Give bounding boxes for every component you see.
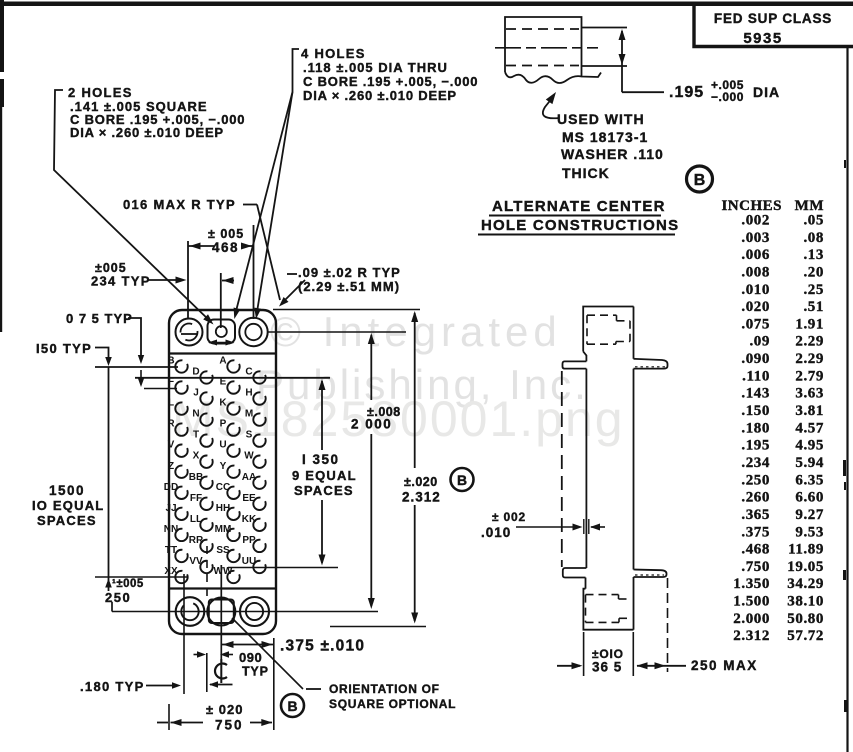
- extension row W right: [228, 567, 338, 569]
- svg-text:.13: .13: [803, 247, 824, 263]
- dim 750 extension left: [168, 704, 170, 730]
- top middle hole width arrows: [209, 342, 234, 344]
- svg-text:L: L: [168, 398, 174, 409]
- svg-text:.09: .09: [749, 334, 770, 350]
- svg-text:.118 ±.005 DIA THRU: .118 ±.005 DIA THRU: [303, 60, 448, 75]
- svg-text:.150: .150: [741, 403, 770, 419]
- side view top cap outline: [583, 307, 633, 352]
- top middle square hole: [208, 320, 236, 344]
- svg-text:.365: .365: [741, 507, 770, 523]
- svg-text:.20: .20: [803, 264, 824, 280]
- svg-text:Z: Z: [168, 461, 174, 472]
- svg-text:C BORE .195 +.005, −.000: C BORE .195 +.005, −.000: [303, 74, 478, 89]
- svg-text:.180: .180: [741, 420, 770, 436]
- middle hole centerline below board: [220, 565, 222, 662]
- dim 1500 bottom arrow: [108, 577, 110, 591]
- extension board bottom edge: [330, 626, 426, 628]
- svg-text:JJ: JJ: [165, 503, 176, 514]
- svg-text:.375 ±.010: .375 ±.010: [280, 638, 365, 655]
- dim 365 extension right: [632, 632, 634, 676]
- title box FED SUP CLASS: [694, 4, 853, 47]
- svg-text:CC: CC: [216, 482, 230, 493]
- svg-text:4.95: 4.95: [795, 438, 824, 454]
- row B extension line: [95, 366, 178, 368]
- svg-text:(2.29 ±.51 MM): (2.29 ±.51 MM): [298, 279, 400, 294]
- row C-D long extension line: [135, 377, 330, 379]
- svg-text:IO EQUAL: IO EQUAL: [32, 498, 104, 513]
- washer detail hidden line lower: [506, 65, 579, 67]
- svg-text:T: T: [193, 430, 199, 441]
- svg-text:.110: .110: [742, 368, 770, 384]
- svg-text:2 HOLES: 2 HOLES: [68, 85, 133, 100]
- svg-text:BB: BB: [189, 472, 203, 483]
- svg-text:.003: .003: [741, 230, 770, 246]
- washer detail step line lower: [582, 65, 628, 67]
- svg-text:38.10: 38.10: [787, 594, 824, 610]
- svg-text:ORIENTATION OF: ORIENTATION OF: [329, 682, 440, 696]
- svg-text:XX: XX: [164, 566, 178, 577]
- svg-text:9.27: 9.27: [795, 507, 824, 523]
- bottom middle square hole: [207, 598, 235, 626]
- dim 090 arrows: [194, 654, 204, 656]
- svg-text:HOLE CONSTRUCTIONS: HOLE CONSTRUCTIONS: [481, 217, 679, 234]
- svg-text:± 002: ± 002: [492, 510, 526, 524]
- svg-text:MS182580001.png: MS182580001.png: [172, 391, 625, 447]
- svg-text:468: 468: [212, 240, 239, 255]
- used-with leader arrow: [543, 97, 559, 118]
- svg-text:50.80: 50.80: [787, 611, 824, 627]
- svg-text:0 7 5 TYP: 0 7 5 TYP: [66, 311, 133, 326]
- dim 2312 line: [414, 313, 416, 468]
- svg-text:FF: FF: [190, 493, 202, 504]
- sheet border top bar: [0, 2, 853, 7]
- svg-text:Y: Y: [220, 461, 227, 472]
- svg-text:USED WITH: USED WITH: [557, 111, 645, 127]
- terminal column extension vertical: [183, 574, 185, 694]
- svg-text:2.312: 2.312: [402, 490, 441, 505]
- svg-text:.234: .234: [741, 455, 770, 471]
- extension top hole center: [268, 331, 406, 333]
- balloon B upper: [687, 166, 713, 192]
- note 4 holes bracket: [293, 49, 300, 92]
- svg-text:AA: AA: [242, 472, 256, 483]
- note 2 holes bracket and leader: [54, 90, 211, 322]
- svg-text:SQUARE OPTIONAL: SQUARE OPTIONAL: [329, 697, 456, 711]
- svg-text:C: C: [245, 367, 252, 378]
- dim 1350 line: [321, 381, 323, 450]
- svg-text:LL: LL: [190, 514, 202, 525]
- side view hidden plug bottom: [586, 594, 619, 596]
- svg-text:34.29: 34.29: [787, 576, 824, 592]
- svg-text:M: M: [245, 409, 253, 420]
- svg-text:DIA × .260 ±.010 DEEP: DIA × .260 ±.010 DEEP: [70, 125, 224, 140]
- svg-text:VV: VV: [189, 556, 203, 567]
- svg-text:J: J: [193, 388, 199, 399]
- svg-text:9 EQUAL: 9 EQUAL: [292, 468, 357, 483]
- row F extension line: [144, 388, 177, 390]
- washer dim vertical with arrows: [621, 31, 623, 92]
- svg-text:UU: UU: [242, 556, 256, 567]
- svg-text:W: W: [244, 451, 254, 462]
- dim 365 extension left: [583, 632, 585, 676]
- svg-text:U: U: [219, 440, 226, 451]
- svg-text:4 HOLES: 4 HOLES: [301, 46, 366, 61]
- svg-text:N: N: [192, 409, 199, 420]
- svg-text:NN: NN: [164, 524, 178, 535]
- board bottom divider line: [169, 587, 276, 589]
- svg-text:R: R: [167, 419, 175, 430]
- side view upper right tab: [634, 359, 668, 369]
- svg-text:B: B: [457, 472, 467, 488]
- svg-text:.05: .05: [803, 213, 824, 229]
- terminal grid with letters: [175, 360, 187, 372]
- svg-text:X: X: [193, 451, 200, 462]
- svg-text:MM: MM: [215, 524, 232, 535]
- svg-text:P: P: [220, 419, 227, 430]
- svg-text:1.350: 1.350: [733, 576, 770, 592]
- bottom right mounting hole: [240, 597, 269, 626]
- svg-text:.195: .195: [669, 84, 704, 101]
- svg-text:2.29: 2.29: [795, 351, 824, 367]
- side view hidden plug top: [587, 314, 617, 316]
- svg-text:016 MAX R TYP: 016 MAX R TYP: [123, 197, 236, 212]
- top left mounting hole: [176, 319, 203, 346]
- right edge cut text marks: [843, 460, 846, 476]
- svg-text:FED SUP CLASS: FED SUP CLASS: [714, 11, 832, 26]
- extension board top edge: [273, 309, 420, 311]
- svg-text:MS 18173-1: MS 18173-1: [562, 129, 648, 145]
- svg-text:6.35: 6.35: [795, 472, 824, 488]
- svg-text:TT: TT: [165, 545, 177, 556]
- sheet border left bar: [0, 0, 4, 72]
- dim 234 extension middle: [220, 273, 222, 328]
- svg-text:.250: .250: [741, 472, 770, 488]
- side view right edge: [633, 307, 635, 359]
- svg-text:.010: .010: [481, 525, 511, 540]
- svg-text:I 350: I 350: [302, 452, 340, 467]
- svg-text:6.60: 6.60: [795, 490, 824, 506]
- side view lower right tab: [634, 570, 667, 578]
- svg-text:.180 TYP: .180 TYP: [80, 679, 145, 694]
- svg-text:K: K: [219, 398, 227, 409]
- side view left edge: [585, 369, 587, 568]
- top right mounting hole: [239, 318, 267, 346]
- bottom left mounting hole: [176, 597, 205, 626]
- svg-text:1500: 1500: [49, 483, 85, 498]
- svg-text:4.57: 4.57: [795, 420, 824, 436]
- svg-text:S: S: [246, 430, 253, 441]
- washer dim leader to text: [622, 91, 664, 93]
- svg-text:2.000: 2.000: [733, 611, 770, 627]
- svg-text:PP: PP: [242, 535, 256, 546]
- svg-text:DIA × .260 ±.010 DEEP: DIA × .260 ±.010 DEEP: [303, 88, 457, 103]
- svg-text:V: V: [168, 440, 175, 451]
- svg-text:TYP: TYP: [242, 665, 269, 679]
- orientation note leader: [232, 618, 303, 689]
- extension bottom hole center: [112, 611, 378, 613]
- svg-text:2 000: 2 000: [351, 417, 392, 432]
- svg-text:.143: .143: [741, 386, 770, 402]
- balloon B mid: [451, 468, 474, 491]
- dim 375 extensions: [273, 638, 275, 730]
- dim 468 extension left: [187, 241, 189, 319]
- svg-text:.010: .010: [741, 282, 770, 298]
- svg-text:2.29: 2.29: [795, 334, 824, 350]
- svg-text:250 MAX: 250 MAX: [691, 658, 758, 673]
- dim 468 extension right: [253, 225, 255, 319]
- dim 234 arrow left: [148, 279, 183, 281]
- svg-text:19.05: 19.05: [787, 559, 824, 575]
- svg-text:ALTERNATE CENTER: ALTERNATE CENTER: [492, 198, 666, 215]
- svg-text:D: D: [192, 367, 199, 378]
- svg-text:DD: DD: [164, 482, 178, 493]
- dim 468 line and arrows: [188, 245, 214, 247]
- svg-text:.260: .260: [741, 490, 770, 506]
- svg-text:.090: .090: [741, 351, 770, 367]
- side view left edge step: [583, 352, 586, 362]
- dim 180 arrow: [146, 685, 177, 687]
- svg-text:.006: .006: [741, 247, 770, 263]
- svg-text:A: A: [219, 356, 226, 367]
- svg-text:WASHER .110: WASHER .110: [561, 146, 664, 162]
- svg-text:.09 ±.02 R TYP: .09 ±.02 R TYP: [298, 265, 401, 280]
- svg-text:±.020: ±.020: [404, 475, 438, 489]
- dim 250 leader: [111, 602, 113, 612]
- svg-text:36 5: 36 5: [592, 660, 622, 675]
- svg-text:5935: 5935: [743, 30, 782, 47]
- dim 010 arrow: [516, 526, 579, 528]
- svg-text:.08: .08: [803, 230, 824, 246]
- note 4 holes leader to middle hole: [235, 92, 293, 315]
- svg-text:−.000: −.000: [711, 90, 744, 104]
- svg-text:B: B: [167, 356, 174, 367]
- svg-text:2.312: 2.312: [733, 628, 770, 644]
- side view lower left tab: [563, 568, 587, 578]
- svg-text:B: B: [287, 698, 297, 714]
- svg-text:RR: RR: [189, 535, 204, 546]
- note 4 holes leader to right hole: [257, 92, 293, 315]
- svg-text:.195: .195: [741, 438, 770, 454]
- svg-text:H: H: [245, 388, 252, 399]
- dim 365 arrows: [557, 665, 580, 667]
- washer detail torn bottom edge: [505, 72, 601, 83]
- svg-text:KK: KK: [242, 514, 257, 525]
- svg-text:HH: HH: [216, 503, 230, 514]
- side view upper left tab: [563, 361, 587, 368]
- label 016 leader: [257, 205, 280, 301]
- svg-text:± 020: ± 020: [206, 702, 243, 717]
- svg-text:.002: .002: [741, 213, 770, 229]
- svg-text:.075: .075: [741, 316, 770, 332]
- svg-text:.750: .750: [741, 559, 770, 575]
- dim 250 max extension: [667, 578, 669, 672]
- svg-text:± 005: ± 005: [208, 227, 244, 241]
- sheet border right line: [846, 46, 848, 752]
- board body outline: [169, 310, 276, 634]
- svg-text:¹±005: ¹±005: [112, 578, 144, 590]
- svg-text:2.79: 2.79: [795, 368, 824, 384]
- svg-text:THICK: THICK: [562, 165, 610, 181]
- dim 234 arrow right: [222, 280, 234, 282]
- leader 150 typ: [95, 348, 109, 362]
- bottom row extension line: [95, 576, 187, 578]
- svg-text:1.91: 1.91: [795, 316, 824, 332]
- svg-text:EE: EE: [242, 493, 256, 504]
- svg-text:.51: .51: [803, 299, 824, 315]
- svg-text:I50 TYP: I50 TYP: [36, 341, 92, 356]
- svg-text:B: B: [694, 172, 706, 189]
- svg-text:SPACES: SPACES: [37, 513, 97, 528]
- svg-text:SPACES: SPACES: [294, 483, 354, 498]
- svg-text:.25: .25: [803, 282, 824, 298]
- dim 2000 line: [370, 335, 372, 400]
- washer detail step line upper: [582, 27, 628, 29]
- centerline symbol: [215, 664, 227, 679]
- dim 375 line: [221, 644, 273, 646]
- balloon B lower left: [281, 694, 304, 717]
- svg-text:3.63: 3.63: [795, 386, 824, 402]
- svg-text:3.81: 3.81: [795, 403, 824, 419]
- svg-text:9.53: 9.53: [795, 524, 824, 540]
- svg-text:SS: SS: [216, 545, 230, 556]
- svg-text:DIA: DIA: [753, 84, 780, 100]
- dim 090 vertical tick: [206, 653, 208, 692]
- svg-text:1.500: 1.500: [733, 594, 770, 610]
- dim 750 line: [157, 722, 168, 724]
- svg-text:090: 090: [239, 650, 262, 665]
- svg-text:.375: .375: [741, 524, 770, 540]
- board top divider line: [169, 352, 276, 354]
- leader 075 typ: [128, 318, 141, 360]
- svg-text:.008: .008: [741, 264, 770, 280]
- svg-text:.020: .020: [741, 299, 770, 315]
- dim 180 mate arrow: [210, 684, 233, 686]
- side view left edge lower: [585, 578, 587, 589]
- svg-text:5.94: 5.94: [795, 455, 824, 471]
- label 09 leader: [282, 280, 305, 303]
- svg-text:11.89: 11.89: [788, 542, 824, 558]
- svg-text:.468: .468: [741, 542, 770, 558]
- side view hidden left line: [561, 371, 563, 567]
- side view bottom cap: [583, 589, 633, 630]
- dim 1500 line: [108, 367, 110, 577]
- washer detail center line: [495, 47, 598, 49]
- svg-text:57.72: 57.72: [787, 628, 824, 644]
- board vertical dashed centerline: [206, 546, 208, 597]
- washer detail hidden line upper: [506, 28, 579, 30]
- svg-text:250: 250: [105, 590, 131, 605]
- svg-text:234 TYP: 234 TYP: [91, 274, 151, 289]
- washer detail body outline: [505, 17, 582, 77]
- svg-text:750: 750: [215, 718, 244, 733]
